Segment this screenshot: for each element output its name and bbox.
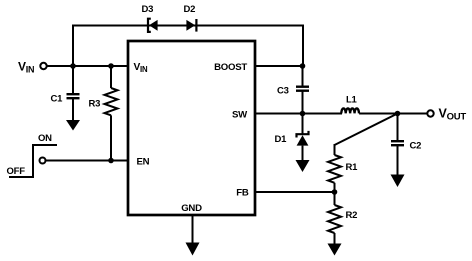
svg-text:BOOST: BOOST: [214, 62, 247, 73]
svg-text:FB: FB: [236, 188, 249, 199]
resistor R1: [328, 144, 358, 192]
svg-text:C3: C3: [277, 86, 289, 97]
junction output node: [395, 111, 401, 117]
junction FB node: [332, 189, 338, 195]
junction SW/D1 node: [300, 111, 306, 117]
wire GND pin: [192, 215, 194, 244]
svg-text:D1: D1: [275, 134, 288, 145]
svg-text:EN: EN: [137, 157, 150, 168]
svg-text:D3: D3: [142, 4, 154, 15]
diode D2: [184, 4, 197, 32]
resistor R3: [89, 66, 118, 161]
ground D1: [296, 160, 310, 172]
IC U1: [128, 41, 255, 215]
svg-text:C2: C2: [410, 141, 422, 152]
svg-text:R2: R2: [346, 210, 358, 221]
svg-text:R1: R1: [346, 162, 359, 173]
svg-text:C1: C1: [51, 94, 64, 105]
ground R2: [328, 244, 342, 256]
svg-text:GND: GND: [181, 203, 202, 214]
wire BOOST pin: [255, 65, 303, 67]
junction VIN/C1/bootstrap node: [70, 63, 76, 69]
wire FB pin: [255, 191, 335, 193]
inductor L1: [341, 95, 359, 114]
wire bootstrap top loop: [72, 26, 304, 67]
svg-text:L1: L1: [346, 95, 358, 106]
svg-text:R3: R3: [89, 99, 101, 110]
wire VIN terminal to U1 VIN pin: [47, 65, 128, 67]
diode D3: [142, 4, 158, 32]
wire feedback diagonal from output node to R1: [335, 114, 398, 146]
terminal VOUT: [427, 107, 466, 123]
capacitor C3: [277, 66, 309, 114]
svg-text:OFF: OFF: [7, 166, 26, 177]
diode D1 (Schottky): [275, 114, 309, 162]
ground C2: [391, 175, 405, 188]
wire SW pin to inductor: [255, 113, 342, 115]
switch ON/OFF: [7, 133, 58, 177]
wire inductor to output node: [359, 113, 427, 115]
resistor R2: [328, 192, 357, 244]
wire EN switch to U1 EN pin: [46, 160, 129, 162]
junction VIN/R3 node: [108, 63, 114, 69]
ground C1: [66, 120, 80, 131]
svg-text:SW: SW: [232, 110, 248, 121]
junction BOOST node: [300, 63, 306, 69]
junction EN/R3 node: [108, 158, 114, 164]
svg-text:ON: ON: [38, 133, 52, 144]
capacitor C1: [51, 66, 80, 121]
svg-text:D2: D2: [184, 4, 196, 15]
ground GND pin: [186, 243, 200, 256]
capacitor C2: [391, 114, 421, 176]
terminal VIN: [18, 60, 47, 75]
